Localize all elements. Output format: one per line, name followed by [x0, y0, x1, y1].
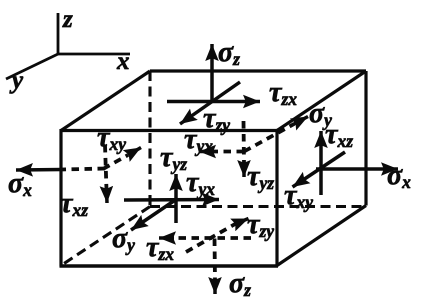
arrow sigma-x left shaft — [62, 169, 105, 170]
arrow sigma-z top — [210, 44, 214, 102]
svg-text:τxz: τxz — [325, 119, 353, 151]
arrow tau-zy bottom shaft — [186, 224, 236, 253]
cube front top edge — [61, 129, 277, 132]
svg-text:σx: σx — [387, 160, 411, 192]
svg-text:x: x — [116, 48, 130, 75]
arrow sigma-y back head — [293, 117, 308, 125]
svg-text:τxy: τxy — [97, 122, 126, 154]
arrow tau-yx back shaft — [210, 150, 244, 154]
arrow tau-yz front — [174, 174, 178, 223]
arrow sigma-z bottom head — [213, 279, 217, 294]
cube front right vertical edge — [275, 129, 278, 266]
arrow tau-zy bottom head — [235, 219, 249, 225]
arrow tau-zx bottom shaft — [172, 236, 251, 240]
arrow sigma-y back shaft — [244, 124, 294, 152]
arrow tau-zx bottom head — [159, 236, 174, 240]
arrow tau-zx top — [167, 100, 260, 104]
arrow tau-xz right — [319, 131, 323, 195]
svg-text:τyz: τyz — [247, 161, 274, 193]
cube hidden back bottom edge — [150, 205, 366, 208]
cube top-right slant edge — [277, 71, 366, 131]
arrow tau-yx back head — [199, 150, 212, 154]
svg-text:τzx: τzx — [269, 77, 297, 109]
arrow tau-xz left head — [105, 189, 109, 203]
svg-text:z: z — [62, 6, 73, 33]
cube front bottom edge — [60, 264, 279, 268]
arrow tau-xy right — [293, 152, 346, 187]
svg-text:σz: σz — [218, 37, 240, 69]
svg-text:τxz: τxz — [60, 188, 88, 220]
svg-text:σz: σz — [229, 268, 251, 299]
arrow sigma-x left head — [16, 168, 62, 172]
arrow tau-yx front — [124, 198, 219, 202]
svg-text:σx: σx — [8, 168, 32, 200]
arrow tau-zy top — [180, 82, 240, 124]
svg-text:τzy: τzy — [247, 209, 274, 241]
arrow sigma-z bottom shaft — [213, 239, 217, 282]
coordinate axis y — [6, 54, 58, 79]
arrow tau-xy left shaft — [103, 155, 128, 169]
arrow tau-yz back head — [242, 163, 246, 177]
svg-text:τzy: τzy — [203, 103, 230, 135]
cube bottom-right slant edge — [277, 206, 366, 266]
svg-text:τyx: τyx — [186, 167, 215, 199]
cube hidden back-left vertical edge — [148, 71, 151, 207]
arrow tau-xy left head — [128, 148, 141, 156]
coordinate axis x — [58, 53, 130, 56]
arrow tau-xz left shaft — [105, 145, 107, 190]
arrow sigma-x right — [316, 167, 398, 171]
cube back top edge — [150, 69, 366, 72]
svg-text:y: y — [9, 67, 24, 94]
arrow tau-yz back shaft — [242, 121, 246, 164]
arrow sigma-y front — [131, 200, 176, 231]
cube back right vertical edge — [364, 71, 367, 206]
cube front left vertical edge — [59, 129, 62, 267]
cube hidden bottom-left slant edge — [61, 207, 150, 266]
coordinate axis z — [57, 13, 60, 54]
cube top-left slant edge — [61, 71, 150, 131]
